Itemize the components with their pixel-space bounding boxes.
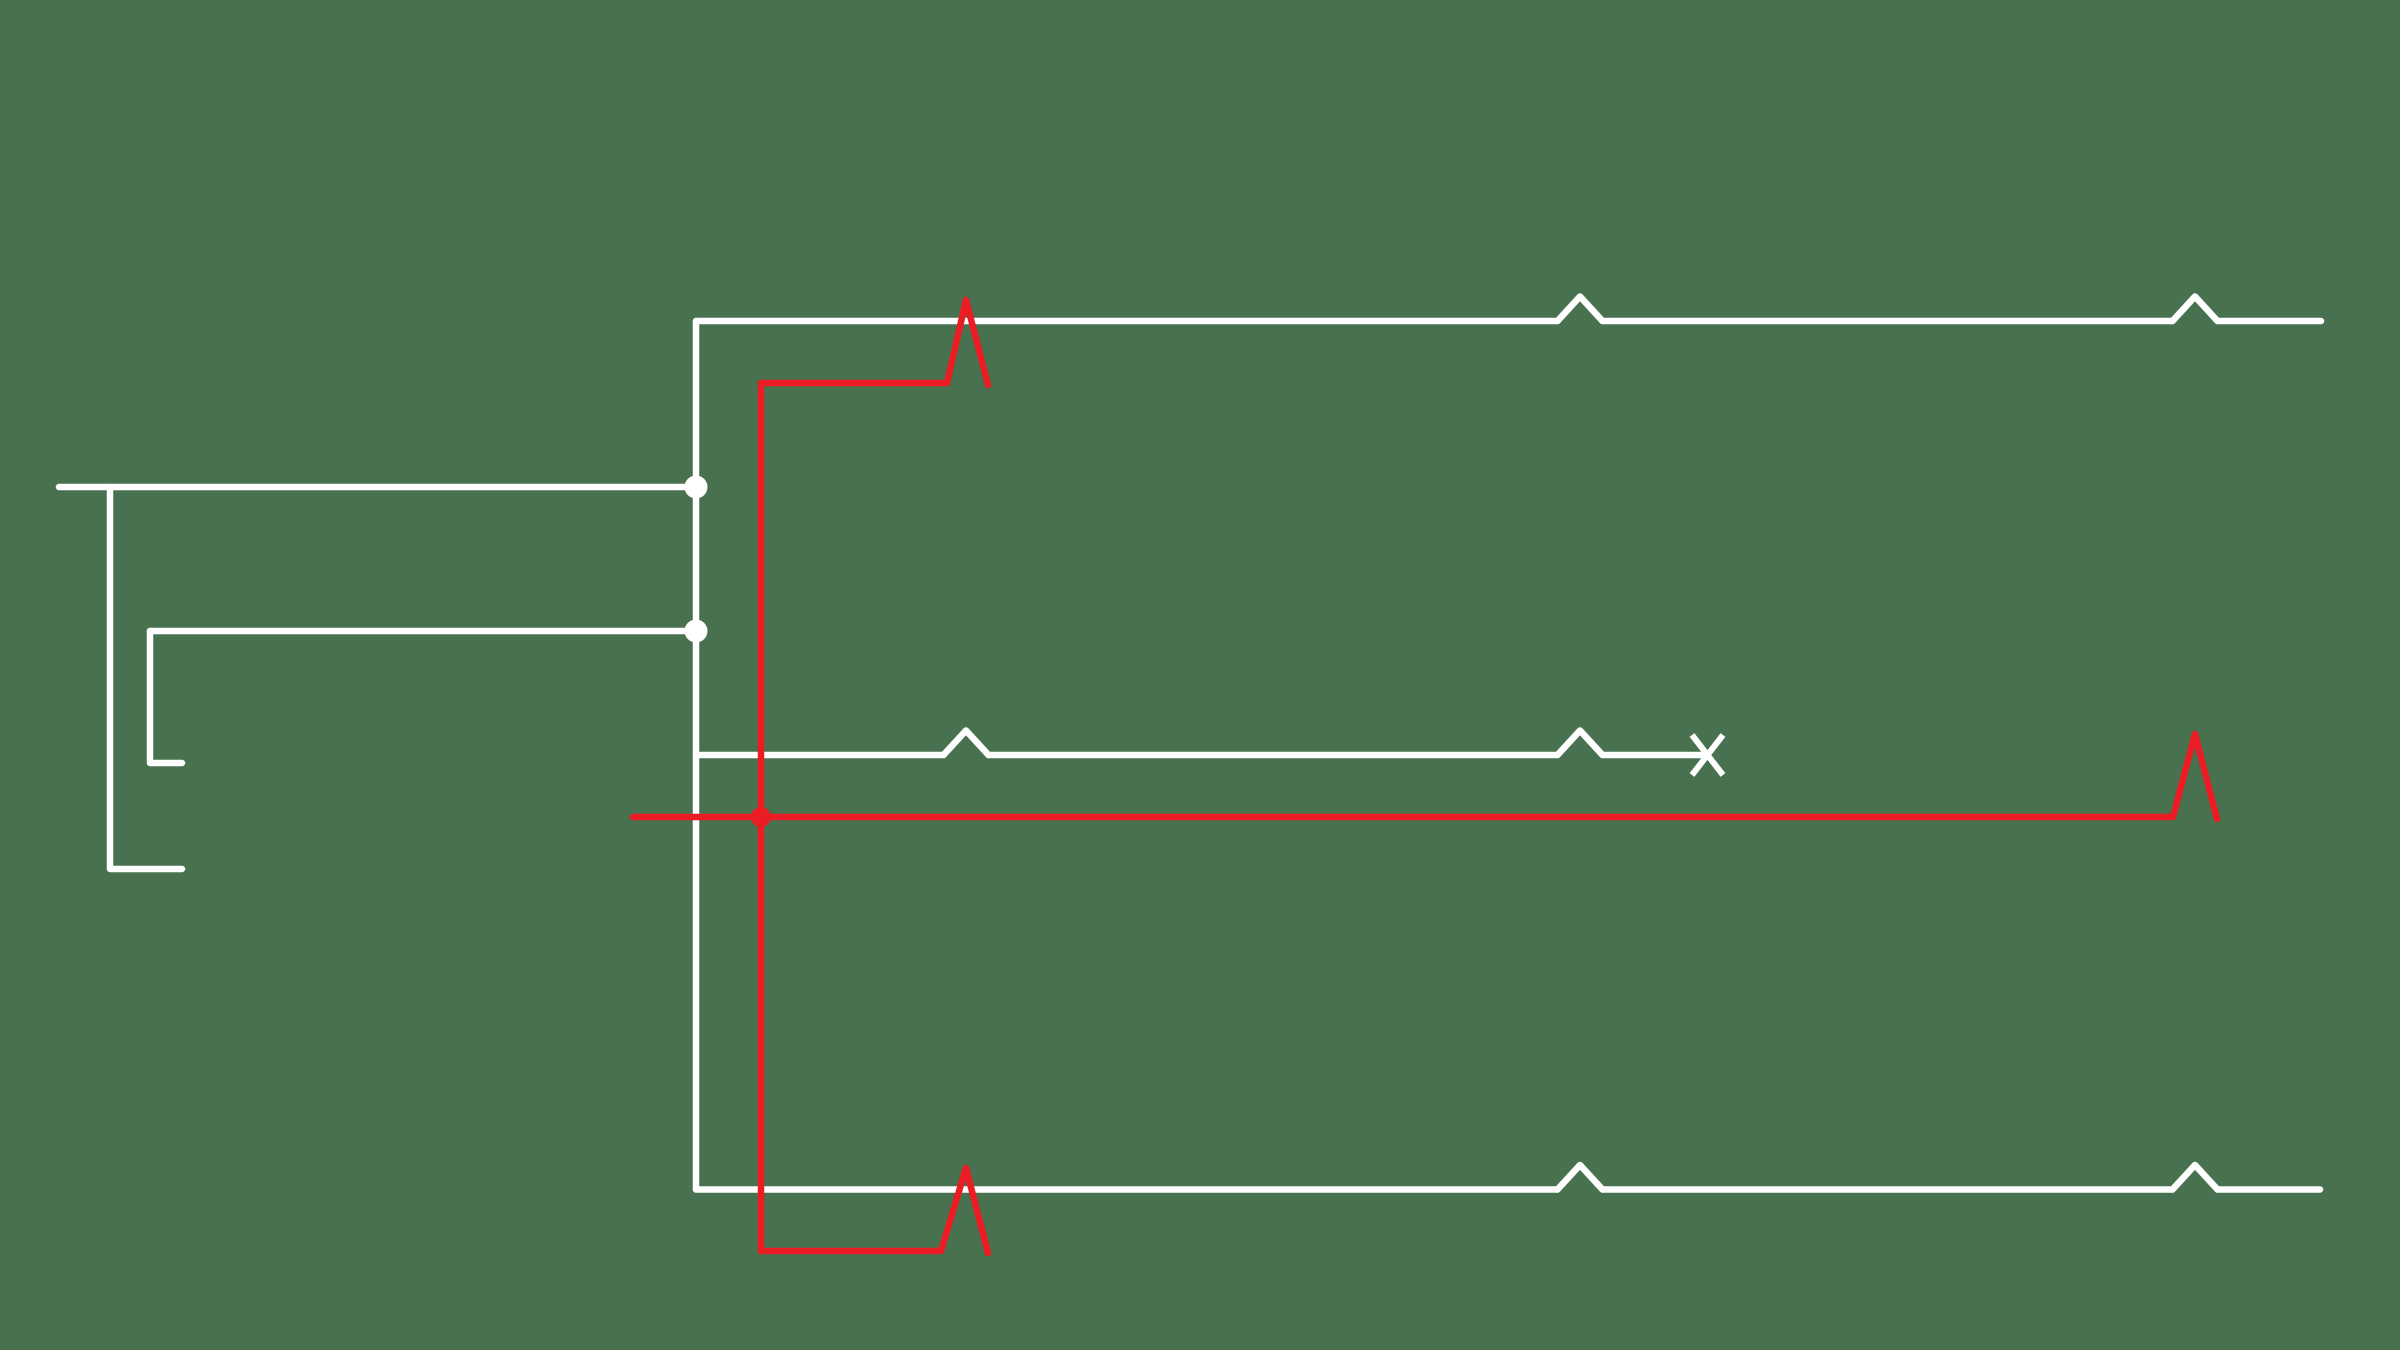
break mark X on middle rail	[1692, 735, 1723, 775]
wire W11 middle rail segment 3	[1603, 752, 1702, 759]
wire W9 middle rail segment 1	[696, 752, 944, 759]
contact chevron K6 on bottom rail	[2173, 1165, 2218, 1190]
red spike S2 top branch end	[947, 300, 988, 385]
wire W7 top rail segment 2	[1603, 318, 2173, 325]
wire W2 left drop branch with stub	[110, 487, 182, 869]
red wire R4 bottom branch	[761, 1248, 941, 1255]
wire W12 bottom rail segment 1	[696, 1186, 1558, 1193]
contact chevron K3 on middle rail	[944, 731, 989, 756]
wire W4 second drop branch with stub	[150, 631, 182, 763]
contact chevron K5 on bottom rail	[1558, 1165, 1603, 1190]
red wire R3 top branch	[761, 380, 947, 387]
wire W13 bottom rail segment 2	[1603, 1186, 2173, 1193]
wire W6 top rail segment 1	[696, 318, 1558, 325]
junction dot J2	[685, 620, 708, 643]
red spike S1 right end	[2173, 734, 2217, 819]
red spike S3 bottom branch end	[941, 1168, 988, 1253]
junction dot J1	[685, 476, 708, 499]
wire W10 middle rail segment 2	[989, 752, 1558, 759]
wire W14 bottom rail segment 3	[2218, 1186, 2321, 1193]
wire W1 feed left horizontal	[59, 484, 696, 491]
wire W5 main vertical bus	[693, 321, 700, 1190]
red wire R1 middle horizontal	[633, 814, 2173, 821]
contact chevron K2 on top rail	[2173, 297, 2218, 322]
wire W3 second feed horizontal	[150, 628, 696, 635]
red wire R2 vertical	[758, 383, 765, 1251]
wire W8 top rail segment 3	[2218, 318, 2322, 325]
contact chevron K4 on middle rail	[1558, 731, 1603, 756]
red junction dot J3	[751, 807, 771, 827]
contact chevron K1 on top rail	[1558, 297, 1603, 322]
